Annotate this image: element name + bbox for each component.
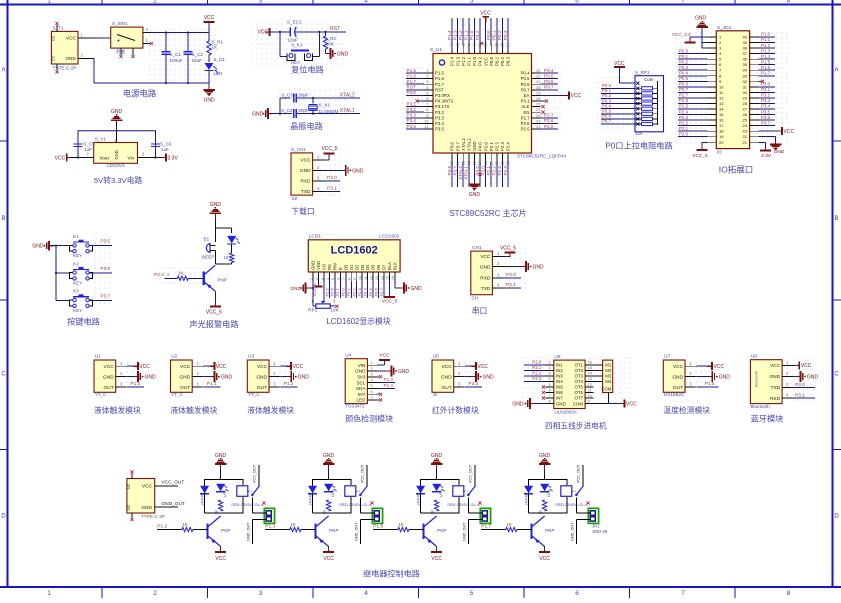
svg-text:31: 31 (536, 79, 541, 84)
svg-text:12: 12 (719, 95, 724, 100)
no-connect INT (377, 393, 382, 396)
capacitor S_C2 10uF (184, 33, 204, 84)
svg-text:SRD-05VDC-SL-C: SRD-05VDC-SL-C (231, 502, 264, 507)
resistor pack S_RP1 10K (635, 70, 664, 136)
ground (210, 202, 222, 217)
svg-text:1K: 1K (178, 271, 185, 276)
transistor Q1 PNP (208, 513, 231, 547)
svg-text:P1.2: P1.2 (458, 30, 463, 40)
svg-text:19: 19 (719, 134, 724, 139)
wire / net label P0.5 (678, 76, 708, 81)
svg-text:VCC_5: VCC_5 (382, 299, 398, 305)
diode 1N4007 (524, 486, 533, 506)
svg-text:C: C (834, 372, 839, 378)
svg-text:PNP: PNP (545, 528, 554, 533)
svg-text:P1.6: P1.6 (407, 73, 417, 78)
svg-text:P3.2: P3.2 (761, 93, 771, 98)
no-connect (542, 385, 545, 388)
svg-text:M4: M4 (605, 379, 612, 384)
svg-text:16: 16 (588, 360, 593, 365)
svg-text:28: 28 (536, 96, 541, 101)
svg-text:1: 1 (47, 590, 51, 597)
VCC power (VIN) (377, 353, 390, 366)
svg-text:1K: 1K (323, 510, 327, 515)
svg-text:P0.5: P0.5 (679, 76, 689, 81)
resistor 1K (LED) (215, 500, 223, 515)
svg-text:14: 14 (719, 107, 724, 112)
wire VCC / VCC power (204, 362, 227, 370)
svg-text:P4.3INT2: P4.3INT2 (435, 99, 454, 104)
svg-text:GND: GND (32, 244, 44, 250)
wire bottom rail (94, 59, 209, 89)
svg-text:P0.7: P0.7 (544, 85, 554, 90)
wire pin2 to ground (505, 266, 527, 268)
LED (324, 484, 337, 497)
svg-text:GND: GND (65, 56, 76, 62)
svg-text:P1.7: P1.7 (761, 70, 771, 75)
svg-text:P0口上拉电阻电路: P0口上拉电阻电路 (605, 141, 672, 151)
svg-text:P2.4: P2.4 (506, 142, 511, 151)
svg-text:GND: GND (180, 374, 191, 380)
svg-text:P3.0: P3.0 (795, 382, 805, 388)
svg-text:VCC: VCC (626, 401, 637, 407)
VCC power (614, 61, 625, 72)
svg-text:GND: GND (512, 402, 524, 408)
svg-text:P3.2: P3.2 (407, 107, 417, 112)
svg-text:OT5: OT5 (574, 385, 583, 390)
svg-text:2: 2 (153, 0, 157, 5)
wire / net label P1.2 (759, 43, 776, 48)
svg-text:P2.2: P2.2 (679, 120, 689, 125)
wire emitter to VCC (431, 547, 442, 562)
svg-text:GND: GND (103, 374, 114, 380)
svg-text:P2.3: P2.3 (497, 166, 502, 176)
svg-text:VCC_5: VCC_5 (692, 153, 708, 159)
wire GND / ground (204, 371, 233, 382)
wire / net label P3.5 (89, 239, 112, 246)
wire relay frame (421, 480, 460, 514)
wire / net label P0.0 (341, 282, 346, 299)
svg-text:VCC: VCC (216, 364, 227, 370)
svg-text:XZ: XZ (291, 196, 297, 201)
wire / net label P2.4 (503, 162, 508, 187)
ground (32, 241, 53, 251)
wire / net label P3.6 (447, 162, 452, 187)
svg-text:S_RP1: S_RP1 (635, 70, 650, 75)
svg-text:SCL: SCL (356, 380, 365, 385)
ground (relay Q3) (431, 453, 443, 480)
svg-text:OT7: OT7 (574, 396, 583, 401)
svg-text:P2.7: P2.7 (679, 93, 689, 98)
wire switch to VCC rail (150, 22, 209, 34)
wire pin1 to ground (308, 282, 313, 289)
wire / net label P2.0 (678, 131, 708, 136)
svg-text:11: 11 (364, 276, 368, 280)
wire / net label P1.0 (759, 32, 776, 37)
svg-text:GND: GND (221, 375, 233, 381)
wire / net label P1.7 (406, 79, 424, 84)
svg-text:P0.4: P0.4 (521, 71, 530, 76)
wire / net label P3.6 (89, 266, 112, 273)
svg-text:13: 13 (719, 101, 724, 106)
svg-text:U8: U8 (751, 354, 757, 360)
svg-text:1K: 1K (539, 510, 543, 515)
no-connect (541, 105, 544, 108)
svg-text:P2.3: P2.3 (500, 142, 505, 151)
svg-text:P2.3: P2.3 (532, 376, 542, 381)
svg-text:S_C2: S_C2 (192, 52, 204, 57)
wire relay frame (205, 480, 244, 514)
resistor 1K (base) / net label P1.6 (373, 522, 424, 532)
svg-text:B: B (1, 216, 5, 222)
svg-text:A: A (834, 68, 838, 74)
svg-text:OUT: OUT (257, 385, 267, 391)
svg-text:K3: K3 (73, 289, 79, 294)
ground (pin 22) (759, 137, 785, 155)
wire key bus (52, 245, 70, 301)
wire / net label P3.2 (759, 93, 776, 98)
svg-text:VCC: VCC (614, 61, 625, 67)
wire / net label P0.0 (678, 48, 708, 53)
svg-text:20: 20 (719, 140, 724, 145)
svg-text:B: B (834, 216, 838, 222)
svg-text:P0.1: P0.1 (346, 287, 351, 296)
ground (pins 2,3) (695, 16, 708, 49)
relay coil JK1 (231, 486, 264, 507)
svg-text:NC: NC (127, 504, 131, 510)
svg-text:P2.5: P2.5 (679, 104, 689, 109)
wire SDA / net label P1.4 (377, 383, 395, 388)
svg-text:S_EC1: S_EC1 (287, 20, 302, 25)
svg-text:P2.2: P2.2 (492, 166, 497, 176)
relay switch contact (572, 464, 583, 496)
wire OUT / net label P1.1 (204, 381, 221, 387)
svg-text:P3.0RX: P3.0RX (435, 93, 450, 98)
wire GND_OUT (246, 519, 266, 544)
wire / net label P1.1 (464, 18, 469, 45)
svg-text:VCC_5: VCC_5 (500, 245, 516, 251)
svg-text:VCC: VCC (323, 556, 334, 562)
svg-text:VCC: VCC (257, 30, 268, 36)
VCC power (pin 23) (759, 127, 795, 135)
svg-text:6: 6 (337, 278, 341, 280)
svg-text:OT2: OT2 (574, 368, 583, 373)
wire VCC / VCC power (696, 362, 724, 370)
svg-text:S_C3: S_C3 (281, 92, 293, 97)
svg-text:P0.0: P0.0 (341, 287, 346, 296)
svg-text:TYPE-C-2P: TYPE-C-2P (141, 514, 165, 519)
wire / net label P2.7 (678, 93, 708, 98)
wire / net label P3.7 (452, 162, 457, 187)
svg-text:P0.5: P0.5 (544, 73, 554, 78)
wire / net label P1.6 (406, 73, 424, 78)
svg-text:32: 32 (743, 79, 748, 84)
wire / net label P2.2 (678, 120, 708, 125)
relay switch contact (248, 464, 259, 496)
wire / net label P0.7 (379, 282, 384, 299)
svg-text:VCC: VCC (801, 363, 812, 369)
svg-text:10: 10 (424, 118, 429, 123)
svg-text:P3.7: P3.7 (452, 166, 457, 176)
svg-text:U7: U7 (664, 354, 670, 360)
svg-text:P2.3: P2.3 (679, 115, 689, 120)
svg-text:GND: GND (431, 453, 443, 459)
svg-text:GND: GND (300, 168, 311, 174)
driver U6 ULN2003A (546, 354, 594, 415)
motor connector M (594, 360, 613, 392)
svg-text:K1: K1 (73, 234, 79, 239)
transistor Q? PNP (204, 264, 227, 291)
svg-text:IN5: IN5 (556, 385, 563, 390)
wire / net label P1.7 (759, 70, 776, 75)
svg-text:串口: 串口 (472, 307, 488, 316)
svg-text:30: 30 (743, 90, 748, 95)
wire / net label P2.1 (678, 126, 708, 131)
svg-text:36: 36 (743, 57, 748, 62)
svg-text:GND: GND (323, 453, 335, 459)
wire gnd stem (116, 120, 118, 142)
ground (341, 165, 364, 176)
svg-text:Bluetooth: Bluetooth (750, 404, 770, 409)
capacitor S_C4 30pF (281, 108, 360, 118)
svg-text:12: 12 (369, 276, 373, 280)
svg-text:S_C1: S_C1 (170, 52, 182, 57)
svg-text:40: 40 (743, 35, 748, 40)
svg-text:P0.0: P0.0 (489, 56, 494, 65)
svg-text:OUT: OUT (673, 385, 683, 391)
VCC_3.3 power (pin 1) (672, 32, 708, 42)
module U8 Bluetooth (750, 354, 792, 409)
net label P3.1 (505, 282, 522, 288)
svg-text:1K: 1K (212, 45, 219, 50)
wire emitter to VCC (539, 547, 550, 562)
svg-text:P3.7: P3.7 (455, 142, 460, 151)
svg-text:GND_OUT: GND_OUT (161, 501, 185, 507)
wire / net label P0.7 (541, 85, 559, 90)
wire VCC to Com (619, 67, 635, 83)
svg-text:25: 25 (743, 118, 748, 123)
svg-text:M2: M2 (605, 368, 612, 373)
svg-text:S_D1: S_D1 (214, 57, 226, 62)
svg-text:U2: U2 (171, 354, 177, 360)
svg-text:D: D (230, 237, 233, 241)
svg-text:GND_OUT: GND_OUT (246, 522, 250, 541)
svg-text:CH: CH (472, 296, 479, 301)
wire node A (270, 31, 291, 33)
svg-text:P0.2: P0.2 (497, 30, 502, 40)
terminal block connector JK2 (360, 498, 382, 524)
svg-text:VCC: VCC (539, 556, 550, 562)
resistor 1K (LED) (323, 500, 331, 515)
wire / net label P0.4 (541, 68, 559, 73)
svg-text:1N4007: 1N4007 (309, 492, 313, 505)
svg-text:P2.7: P2.7 (544, 113, 554, 118)
svg-text:VCC: VCC (66, 36, 77, 42)
VCC_5 power (206, 302, 222, 315)
wire / net label P0.3 (601, 98, 635, 103)
svg-text:GND: GND (774, 149, 785, 155)
svg-text:P0.6: P0.6 (373, 287, 378, 296)
svg-text:GND: GND (480, 264, 491, 270)
svg-text:P1.0: P1.0 (761, 32, 771, 37)
LED (540, 484, 553, 497)
svg-text:颜色检测模块: 颜色检测模块 (345, 413, 393, 423)
svg-text:VCC: VCC (204, 15, 215, 21)
svg-text:5: 5 (470, 590, 474, 597)
ground (400, 283, 423, 294)
connector S_JD1 IO (708, 25, 759, 155)
svg-text:7: 7 (681, 0, 685, 5)
svg-text:P3.0: P3.0 (761, 82, 771, 87)
svg-text:PNP: PNP (221, 528, 230, 533)
no-connect (542, 396, 545, 399)
svg-text:P2.6: P2.6 (330, 287, 335, 296)
svg-text:P4.2: P4.2 (475, 30, 480, 40)
wire / net label P3.4 (406, 118, 424, 123)
svg-text:7: 7 (342, 278, 346, 280)
wire / net label P2.6 (330, 282, 335, 299)
svg-text:2: 2 (315, 278, 319, 280)
svg-text:LED: LED (356, 398, 366, 403)
svg-text:P0.1: P0.1 (679, 54, 689, 59)
svg-text:PNP: PNP (217, 278, 226, 283)
svg-text:YT_C: YT_C (171, 392, 183, 397)
push button K3 (70, 289, 93, 313)
diode 1N4007 (308, 486, 317, 506)
wire / net label P3.0 (406, 90, 424, 95)
VCC power (204, 15, 215, 27)
svg-text:INT: INT (358, 392, 366, 397)
svg-text:1N4007: 1N4007 (201, 492, 205, 505)
svg-text:P3.6: P3.6 (101, 266, 111, 271)
wire / net label P0.3 (678, 65, 708, 70)
svg-text:DS18B20: DS18B20 (664, 392, 684, 397)
wire / net label P0.6 (678, 82, 708, 87)
svg-text:ULN2003A: ULN2003A (554, 410, 577, 415)
svg-text:RST: RST (407, 85, 416, 90)
svg-text:D: D (1, 514, 6, 520)
svg-text:EA: EA (524, 93, 530, 98)
svg-text:P3.1: P3.1 (795, 393, 805, 399)
wire / net label P0.7 (678, 87, 708, 92)
svg-text:P0.6: P0.6 (521, 82, 530, 87)
svg-text:VCC: VCC (55, 155, 66, 161)
svg-text:VCC_OUT: VCC_OUT (161, 480, 184, 486)
svg-text:液体触发模块: 液体触发模块 (247, 405, 294, 415)
svg-text:P0.2: P0.2 (352, 287, 357, 296)
resistor S_R1 1K (207, 33, 224, 56)
svg-text:P3.6: P3.6 (761, 115, 771, 120)
svg-text:GND_OUT: GND_OUT (570, 522, 574, 541)
svg-text:P3.3: P3.3 (761, 98, 771, 103)
svg-text:P0.7: P0.7 (602, 119, 612, 124)
wire / net label P0.2 (497, 18, 502, 45)
svg-text:OT1: OT1 (574, 363, 583, 368)
svg-text:9: 9 (353, 278, 357, 280)
svg-text:18: 18 (719, 129, 724, 134)
svg-text:P2.2: P2.2 (495, 142, 500, 151)
svg-text:VCC: VCC (215, 556, 226, 562)
no-connect P4.1 (541, 99, 549, 102)
svg-text:LCD1602: LCD1602 (331, 245, 378, 257)
svg-text:GND: GND (290, 286, 301, 292)
relay coil JK4 (555, 486, 588, 507)
capacitor S_EC1 10uF (287, 20, 346, 43)
svg-text:OUT: OUT (180, 385, 190, 391)
svg-text:LED: LED (223, 489, 227, 497)
wire emitter to VCC (323, 547, 334, 562)
svg-text:P3.5: P3.5 (407, 124, 417, 129)
svg-text:P1.0: P1.0 (130, 381, 140, 387)
svg-text:8: 8 (348, 278, 352, 280)
svg-text:1: 1 (309, 278, 313, 280)
3.3V power (pin 21) (759, 142, 772, 159)
wire / net label P0.0 (601, 83, 635, 88)
svg-text:VCC: VCC (477, 364, 488, 370)
svg-text:3V3: 3V3 (357, 375, 366, 380)
svg-text:VCC: VCC (480, 11, 491, 17)
svg-text:P3.1: P3.1 (407, 101, 417, 106)
svg-text:28: 28 (743, 101, 748, 106)
svg-text:SRD-05VDC-SL-C: SRD-05VDC-SL-C (339, 502, 372, 507)
wire VCC / VCC power (465, 362, 488, 370)
wire / net label P0.1 (601, 88, 635, 93)
svg-text:继电器控制电路: 继电器控制电路 (363, 569, 420, 579)
svg-text:P0.3: P0.3 (679, 65, 689, 70)
wire GND / ground (127, 371, 156, 382)
svg-text:IO: IO (717, 149, 722, 154)
svg-text:XTAL1: XTAL1 (467, 138, 472, 151)
svg-text:100uF: 100uF (170, 58, 183, 63)
wire / net label P0.1 (346, 282, 351, 299)
svg-text:C: C (1, 372, 6, 378)
svg-text:1: 1 (47, 0, 51, 5)
ground (relay Q1) (215, 453, 227, 480)
resistor 1K (LED) (431, 500, 439, 515)
capacitor S_C3 30pF (281, 92, 360, 102)
svg-text:A: A (1, 68, 5, 74)
svg-text:P0.7: P0.7 (521, 87, 530, 92)
svg-text:VCC: VCC (480, 254, 491, 260)
svg-text:下载口: 下载口 (291, 206, 314, 216)
svg-text:红外计数模块: 红外计数模块 (432, 405, 479, 415)
wire / net label P1.3 (452, 18, 457, 45)
wire VCC / VCC power (127, 362, 150, 370)
svg-text:VCC: VCC (571, 93, 582, 99)
wire / net label P3.5 (406, 124, 424, 129)
no-connect (542, 391, 545, 394)
svg-text:XTAL2: XTAL2 (461, 138, 466, 151)
svg-text:P0.3: P0.3 (503, 30, 508, 40)
svg-text:1K: 1K (431, 510, 435, 515)
svg-text:电源电路: 电源电路 (123, 89, 157, 99)
net label XTAL1 (340, 108, 355, 114)
svg-text:P0.3: P0.3 (506, 56, 511, 65)
wire GND_OUT (462, 519, 482, 544)
svg-text:D6: D6 (376, 264, 381, 270)
wire / net label P0.5 (601, 109, 635, 114)
svg-text:7: 7 (681, 590, 685, 597)
wire / net label P2.5 (541, 124, 559, 129)
svg-text:3.3V: 3.3V (761, 153, 772, 159)
svg-text:P2.0: P2.0 (532, 359, 542, 364)
svg-text:VCC_5: VCC_5 (206, 309, 222, 315)
svg-text:VCC: VCC (431, 556, 442, 562)
svg-text:P3.1: P3.1 (761, 87, 771, 92)
wire / net label P3.2 (406, 107, 424, 112)
svg-text:E: E (338, 267, 343, 270)
svg-text:P2.6: P2.6 (679, 98, 689, 103)
